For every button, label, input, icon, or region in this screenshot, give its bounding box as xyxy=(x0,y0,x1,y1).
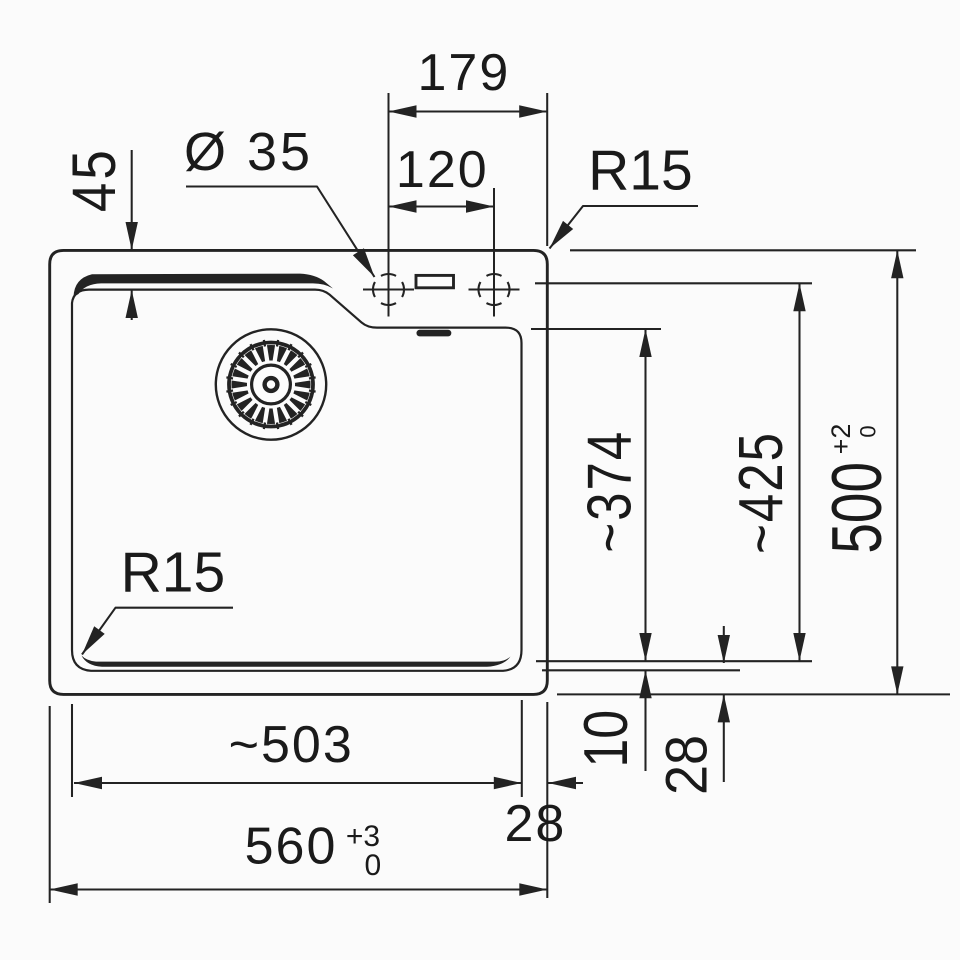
svg-text:~503: ~503 xyxy=(229,716,354,774)
svg-text:+2: +2 xyxy=(826,424,856,455)
svg-text:45: 45 xyxy=(60,147,129,212)
svg-text:~425: ~425 xyxy=(728,431,797,554)
svg-text:10: 10 xyxy=(572,710,641,768)
svg-text:Ø 35: Ø 35 xyxy=(184,122,313,182)
svg-text:0: 0 xyxy=(364,849,381,882)
svg-text:560: 560 xyxy=(245,818,338,876)
svg-text:120: 120 xyxy=(396,141,489,199)
svg-text:0: 0 xyxy=(856,425,881,437)
svg-text:~374: ~374 xyxy=(576,430,645,553)
svg-text:500: 500 xyxy=(818,462,896,554)
svg-text:179: 179 xyxy=(418,44,511,102)
svg-text:R15: R15 xyxy=(121,541,226,605)
svg-text:28: 28 xyxy=(654,735,719,795)
svg-text:28: 28 xyxy=(504,795,566,853)
svg-text:R15: R15 xyxy=(588,139,693,203)
